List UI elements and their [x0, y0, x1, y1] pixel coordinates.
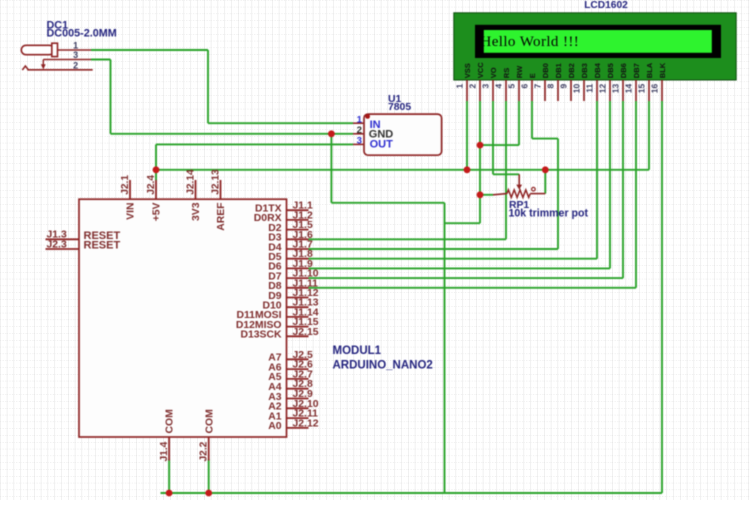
wire LCD pin11 DB4 to D5 [309, 101, 598, 259]
svg-text:DB5: DB5 [606, 63, 615, 78]
LCD pin 2 VCC [467, 62, 485, 101]
connector DC1 DC005-2.0MM [21, 20, 116, 57]
svg-text:4: 4 [493, 84, 503, 89]
wire LCD pin12 DB5 to D6 [309, 101, 611, 268]
svg-text:2: 2 [467, 84, 477, 89]
junction COM J1.4 [166, 490, 173, 497]
svg-text:16: 16 [649, 84, 659, 94]
svg-text:1: 1 [357, 115, 363, 126]
regulator U1 7805 [353, 94, 442, 155]
svg-text:3: 3 [357, 136, 362, 147]
svg-text:9: 9 [558, 84, 568, 89]
MODUL1 right pin J2.12 A0 [268, 418, 319, 432]
wire DC1 pin1 to U1 IN [91, 50, 353, 123]
LCD pin 1 VSS [454, 63, 472, 101]
wire LCD pin14 DB7 to D8 [309, 101, 637, 288]
MODUL1 right pin J2.15 D13SCK [241, 327, 319, 341]
svg-text:10k trimmer pot: 10k trimmer pot [509, 208, 589, 220]
svg-text:COM: COM [165, 409, 176, 433]
MODUL1 right pin J2.9 A3 [268, 389, 313, 403]
svg-text:DB7: DB7 [632, 63, 641, 78]
wire LCD pin13 DB6 to D7 [309, 101, 624, 278]
svg-text:3V3: 3V3 [191, 202, 202, 221]
wire pot left terminal [480, 194, 493, 196]
svg-text:J2.2: J2.2 [199, 441, 210, 461]
wire COM pins to bottom rail [169, 459, 209, 493]
wire LCD pin4 RS to D3 [309, 101, 507, 239]
svg-text:15: 15 [636, 84, 646, 94]
svg-text:J2.1: J2.1 [120, 175, 131, 195]
svg-text:BLK: BLK [658, 62, 667, 78]
LCD pin 9 DB2 [558, 63, 576, 101]
svg-text:DB3: DB3 [580, 63, 589, 78]
svg-text:DB6: DB6 [619, 63, 628, 78]
junction RW VCC [477, 142, 484, 149]
MODUL1 right pin J2.7 A5 [268, 369, 313, 383]
MODUL1 right pin J1.8 D5 [268, 249, 313, 263]
svg-text:J2.4: J2.4 [146, 175, 157, 195]
svg-text:6: 6 [519, 84, 529, 89]
LCD pin 13 DB6 [610, 63, 628, 101]
svg-text:13: 13 [610, 84, 620, 94]
MODUL1 right pin J1.9 D6 [268, 259, 313, 273]
svg-text:VSS: VSS [463, 63, 472, 78]
svg-text:12: 12 [597, 84, 607, 94]
wire LCD pin6 E to D4 [309, 101, 559, 249]
MODUL1 right pin J2.11 A1 [268, 409, 318, 423]
wire +5V rail [156, 101, 649, 170]
MODUL1 right pin J2.5 A7 [268, 350, 313, 364]
svg-text:J2.13: J2.13 [210, 169, 221, 195]
svg-text:COM: COM [204, 409, 215, 433]
trimmer potentiometer RP1 10k [493, 174, 588, 219]
svg-text:J2.12: J2.12 [293, 418, 319, 429]
MODUL1 right pin J1.2 D0RX [254, 210, 313, 224]
MODUL1 right pin J1.11 D8 [268, 278, 318, 292]
wire GND branch to pot left [445, 195, 481, 223]
svg-text:DB1: DB1 [554, 63, 563, 78]
LCD pin 15 BLA [636, 62, 654, 101]
junction pot right rail [542, 166, 549, 173]
svg-text:8: 8 [545, 84, 555, 89]
svg-text:2: 2 [73, 61, 78, 71]
LCD pin 3 VO [480, 67, 498, 101]
MODUL1 right pin J1.10 D7 [268, 269, 319, 283]
svg-text:Hello World !!!: Hello World !!! [481, 34, 580, 50]
LCD pin 10 DB3 [571, 63, 589, 101]
MODUL1 right pin J1.14 D11MOSI [236, 307, 318, 321]
svg-text:J2.14: J2.14 [185, 169, 196, 195]
mcu module MODUL1 ARDUINO_NANO2 [79, 199, 433, 437]
svg-text:RW: RW [515, 65, 524, 78]
LCD pin 12 DB5 [597, 63, 615, 101]
LCD pin 8 DB1 [545, 63, 563, 101]
MODUL1 right pin J1.5 D2 [268, 220, 313, 234]
MODUL1 bottom pin J2.2 COM [199, 409, 216, 461]
svg-text:VCC: VCC [476, 62, 485, 78]
svg-text:RESET: RESET [84, 240, 121, 252]
svg-text:LCD1602: LCD1602 [584, 0, 628, 11]
svg-text:7: 7 [532, 84, 542, 89]
svg-text:10: 10 [571, 84, 581, 94]
svg-text:RS: RS [502, 68, 511, 78]
junction U1 GND [328, 130, 335, 137]
MODUL1 right pin J1.13 D10 [262, 298, 318, 312]
svg-text:DB0: DB0 [541, 63, 550, 78]
svg-text:VIN: VIN [126, 203, 137, 220]
junction LCD VSS rail [464, 166, 471, 173]
svg-text:14: 14 [623, 84, 633, 94]
MODUL1 top pin J2.13 AREF [210, 169, 227, 231]
svg-text:11: 11 [584, 84, 594, 93]
svg-text:2: 2 [357, 125, 362, 136]
junction pot left [477, 191, 484, 198]
wire LCD pin3 VO to pot wiper [493, 101, 519, 174]
LCD pin 14 DB7 [623, 63, 641, 101]
svg-text:1: 1 [454, 84, 464, 89]
wire pot right terminal to +5V rail [544, 170, 546, 194]
MODUL1 top pin J2.14 3V3 [185, 169, 202, 221]
MODUL1 left pin J1.3 RESET [46, 230, 121, 242]
svg-text:E: E [528, 73, 537, 78]
junction COM J2.2 [205, 490, 212, 497]
LCD pin 11 DB4 [584, 62, 602, 101]
MODUL1 right pin J1.1 D1TX [255, 201, 313, 215]
svg-text:DB2: DB2 [567, 63, 576, 78]
DC1 pin 1 [58, 41, 92, 51]
MODUL1 right pin J2.6 A6 [268, 360, 313, 374]
MODUL1 bottom pin J1.4 COM [159, 409, 176, 461]
MODUL1 top pin J2.1 VIN [120, 175, 137, 220]
svg-text:7805: 7805 [388, 102, 411, 113]
svg-text:DB4: DB4 [593, 62, 602, 78]
wire LCD pin1 VSS [466, 101, 468, 170]
MODUL1 top pin J2.4 +5V [146, 175, 163, 222]
wire bottom ground rail [161, 101, 663, 493]
svg-text:MODUL1: MODUL1 [333, 345, 382, 357]
wire GND from U1 down to bottom rail [331, 134, 444, 493]
MODUL1 right pin J1.15 D12MISO [236, 317, 319, 331]
svg-text:3: 3 [480, 84, 490, 89]
MODUL1 right pin J2.10 A2 [268, 399, 319, 413]
svg-text:A0: A0 [268, 421, 282, 432]
MODUL1 left pin J2.3 RESET [46, 239, 121, 251]
MODUL1 right pin J1.7 D4 [268, 240, 313, 254]
svg-text:AREF: AREF [216, 203, 227, 231]
svg-text:D13SCK: D13SCK [241, 330, 282, 341]
wire U1 OUT to +5V pin [156, 144, 353, 180]
svg-text:+5V: +5V [152, 202, 163, 221]
wire LCD pin2 VCC [479, 101, 481, 195]
svg-text:ARDUINO_NANO2: ARDUINO_NANO2 [333, 359, 433, 371]
wire LCD pin5 RW [480, 101, 519, 145]
DC1 pin 2 with switch arrow [22, 60, 92, 71]
MODUL1 right pin J1.6 D3 [268, 230, 313, 244]
LCD pin 16 BLK [649, 62, 667, 101]
LCD pin 7 DB0 [532, 63, 550, 101]
svg-text:3: 3 [73, 50, 78, 60]
wire DC1 pin3 to U1 GND [91, 60, 353, 134]
DC1 pin 3 [43, 50, 91, 60]
MODUL1 right pin J2.8 A4 [268, 379, 313, 393]
MODUL1 right pin J1.12 D9 [268, 288, 319, 302]
svg-text:J2.15: J2.15 [293, 327, 319, 338]
junction +5V at Arduino [153, 166, 160, 173]
svg-text:5: 5 [506, 84, 516, 89]
svg-text:J1.4: J1.4 [159, 441, 170, 461]
LCD pin 6 E [519, 73, 537, 101]
svg-text:BLA: BLA [645, 62, 654, 78]
svg-text:J2.3: J2.3 [47, 239, 67, 250]
svg-text:OUT: OUT [370, 139, 394, 151]
display LCD1602 [454, 0, 736, 80]
svg-text:VO: VO [489, 67, 498, 78]
svg-text:DC005-2.0MM: DC005-2.0MM [47, 28, 117, 40]
svg-text:1: 1 [73, 41, 78, 51]
LCD pin 5 RW [506, 65, 524, 101]
LCD pin 4 RS [493, 68, 511, 101]
